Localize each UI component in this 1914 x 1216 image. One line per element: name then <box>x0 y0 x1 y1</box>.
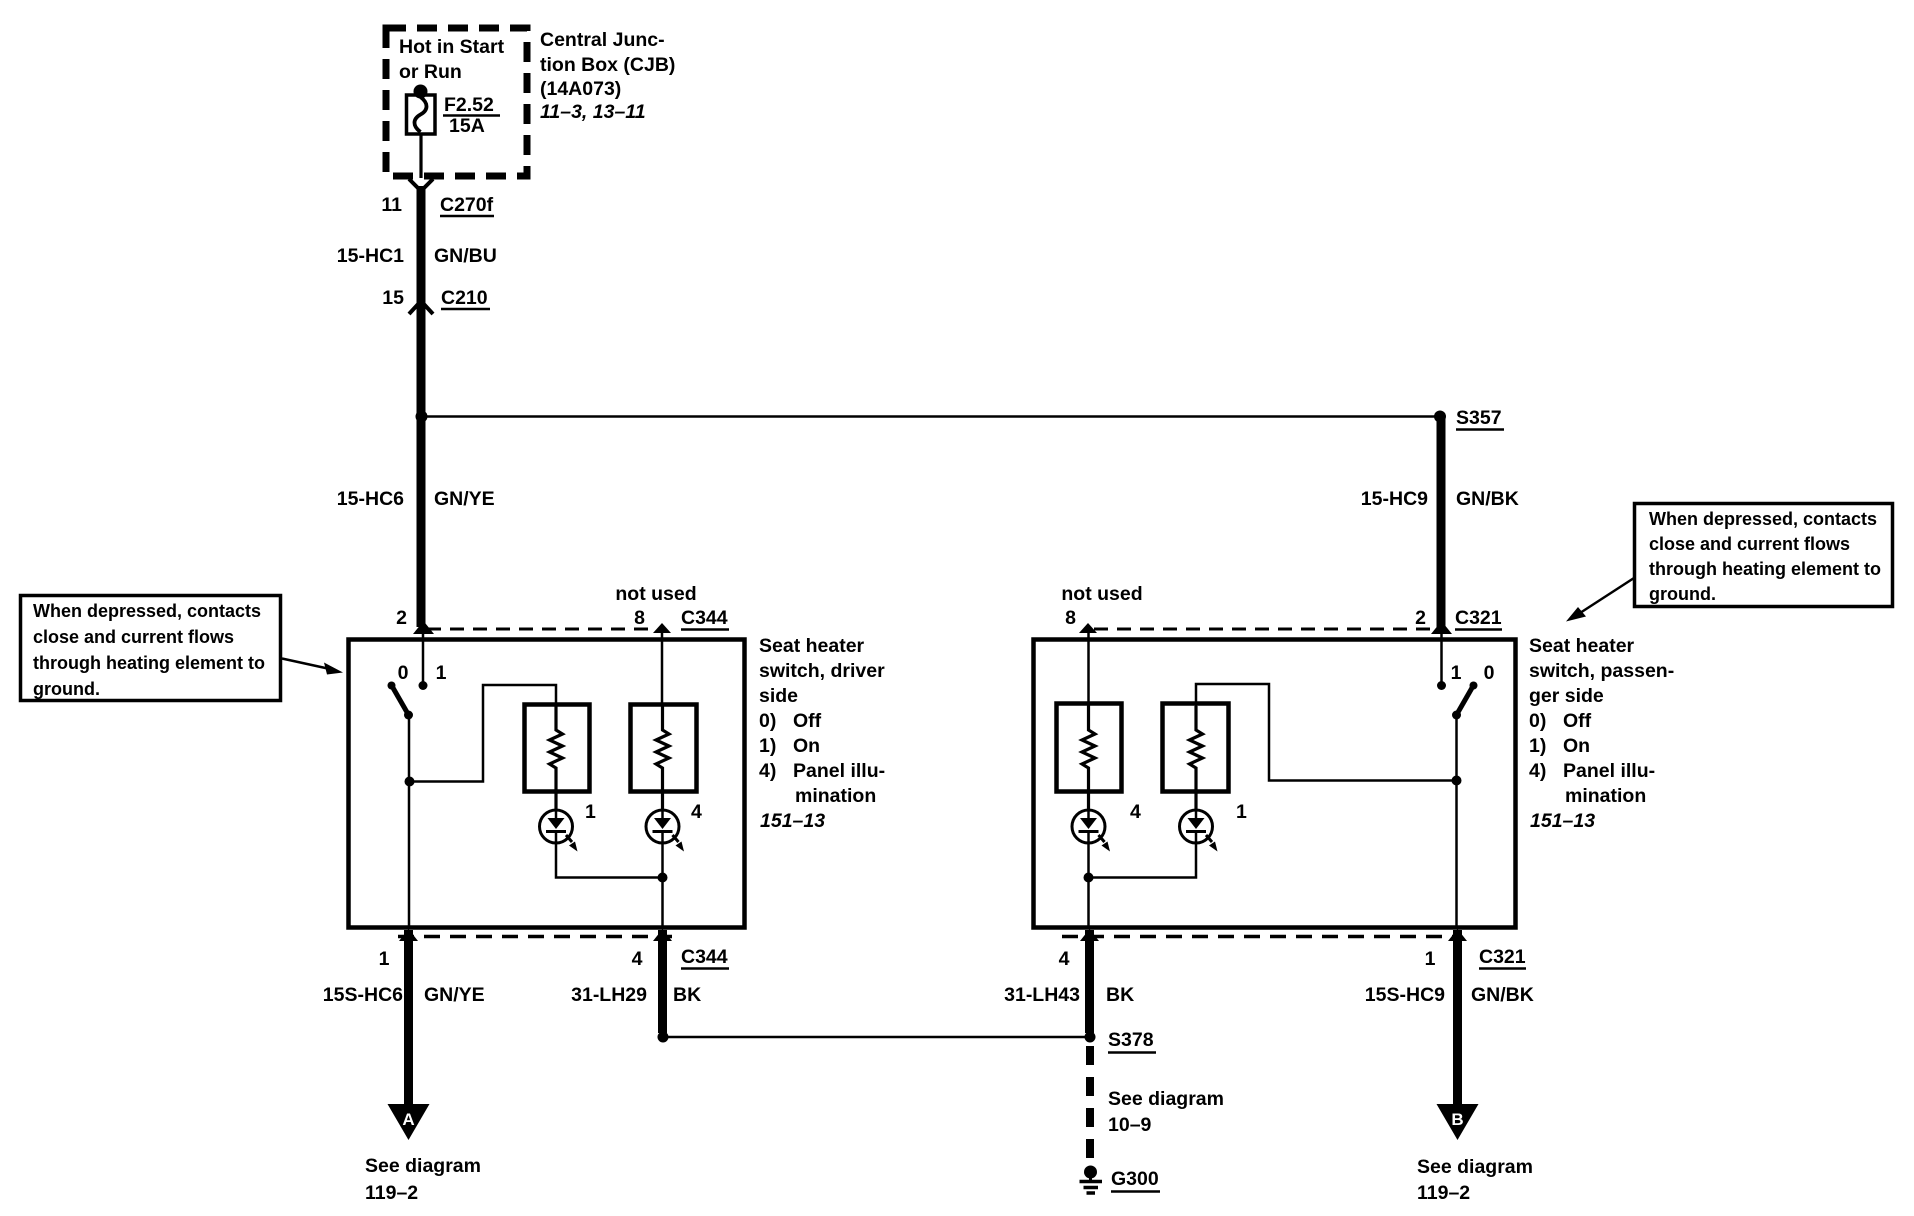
svg-text:See diagram: See diagram <box>1417 1156 1533 1178</box>
off-page arrow B <box>1437 1104 1479 1140</box>
svg-text:On: On <box>793 735 820 757</box>
svg-text:or Run: or Run <box>399 61 462 83</box>
svg-text:GN/YE: GN/YE <box>434 488 495 510</box>
svg-text:On: On <box>1563 735 1590 757</box>
svg-text:S378: S378 <box>1108 1029 1154 1051</box>
switch box driver side <box>349 640 745 928</box>
svg-text:ground.: ground. <box>33 679 100 699</box>
callout note left <box>21 596 281 701</box>
svg-text:1: 1 <box>436 662 447 684</box>
svg-text:Central Junc-: Central Junc- <box>540 29 665 51</box>
svg-text:through heating element to: through heating element to <box>1649 559 1881 579</box>
svg-text:close and current flows: close and current flows <box>33 627 234 647</box>
svg-text:31-LH43: 31-LH43 <box>1004 984 1080 1006</box>
svg-text:1: 1 <box>1451 662 1462 684</box>
node S378 <box>1085 1029 1157 1053</box>
svg-text:31-LH29: 31-LH29 <box>571 984 647 1006</box>
svg-text:switch, passen-: switch, passen- <box>1529 660 1674 682</box>
lamp 4 driver <box>646 801 702 852</box>
connector C210 <box>382 287 490 314</box>
see diagram 10-9 <box>1108 1088 1224 1136</box>
svg-text:Off: Off <box>793 710 822 732</box>
svg-text:GN/BK: GN/BK <box>1471 984 1534 1006</box>
callout arrow right <box>1566 578 1634 622</box>
svg-text:side: side <box>759 685 798 707</box>
svg-text:15S-HC9: 15S-HC9 <box>1365 984 1445 1006</box>
wire lamp 4 to pin 4 passenger <box>1087 843 1090 928</box>
driver box bottom dashed line <box>398 935 672 939</box>
switch box passenger side <box>1034 640 1516 928</box>
svg-text:Panel illu-: Panel illu- <box>793 760 885 782</box>
not used dashed wire passenger <box>1094 628 1437 631</box>
svg-text:15-HC9: 15-HC9 <box>1361 488 1428 510</box>
svg-text:Seat heater: Seat heater <box>1529 635 1635 657</box>
svg-text:GN/BU: GN/BU <box>434 245 497 267</box>
svg-text:C270f: C270f <box>440 194 494 216</box>
svg-text:4): 4) <box>759 760 776 782</box>
wire branch to heating element driver <box>410 685 557 782</box>
svg-text:G300: G300 <box>1111 1168 1159 1190</box>
svg-text:BK: BK <box>1106 984 1134 1006</box>
svg-text:ground.: ground. <box>1649 584 1716 604</box>
junction lamp wires passenger <box>1084 873 1094 883</box>
svg-text:8: 8 <box>634 607 645 629</box>
seat heater switch passenger label <box>1529 635 1674 832</box>
switch SW driver <box>388 634 447 720</box>
connector pin 4 driver C344 <box>632 929 729 970</box>
junction lamp wires driver <box>658 873 668 883</box>
svg-text:15: 15 <box>382 287 404 309</box>
svg-text:151–13: 151–13 <box>760 810 825 832</box>
heating element passenger (pin 8 path) <box>1057 704 1122 811</box>
wire junction to S357 <box>421 415 1440 418</box>
wire 31-LH43 BK <box>1004 930 1134 1033</box>
junction node <box>416 411 428 423</box>
svg-text:C321: C321 <box>1455 607 1502 629</box>
svg-text:not used: not used <box>1061 583 1142 605</box>
svg-text:GN/YE: GN/YE <box>424 984 485 1006</box>
svg-text:4: 4 <box>691 801 702 823</box>
node S357 <box>1434 407 1504 430</box>
wire branch to heating element passenger <box>1196 684 1457 781</box>
connector pin 8 driver C344 <box>634 607 729 633</box>
svg-text:mination: mination <box>1565 785 1646 807</box>
svg-text:0): 0) <box>1529 710 1546 732</box>
svg-text:Off: Off <box>1563 710 1592 732</box>
svg-text:11: 11 <box>381 194 402 216</box>
svg-text:C344: C344 <box>681 946 728 968</box>
dashed wire S378 to G300 <box>1086 1046 1094 1166</box>
svg-text:close and current flows: close and current flows <box>1649 534 1850 554</box>
connector pin 2 driver <box>396 607 434 634</box>
svg-text:Hot in Start: Hot in Start <box>399 36 505 58</box>
svg-text:F2.52: F2.52 <box>444 94 494 116</box>
svg-text:1): 1) <box>759 735 776 757</box>
svg-text:4): 4) <box>1529 760 1546 782</box>
svg-text:See diagram: See diagram <box>365 1155 481 1177</box>
svg-text:switch, driver: switch, driver <box>759 660 885 682</box>
svg-text:B: B <box>1451 1110 1463 1129</box>
svg-text:When depressed, contacts: When depressed, contacts <box>1649 509 1877 529</box>
svg-text:C321: C321 <box>1479 946 1526 968</box>
wire 15S-HC9 GN/BK <box>1365 930 1534 1106</box>
svg-text:0: 0 <box>398 662 409 684</box>
wire pin 8 to heating element 2 driver <box>661 631 664 706</box>
off-page arrow A <box>388 1104 430 1140</box>
see diagram 119-2 right <box>1417 1156 1533 1204</box>
wire switch pole to pin 1 driver <box>408 715 411 928</box>
connector pin 2 passenger C321 <box>1415 607 1502 634</box>
not used dashed wire driver <box>427 583 697 629</box>
svg-text:4: 4 <box>632 948 643 970</box>
svg-text:4: 4 <box>1130 801 1141 823</box>
svg-text:15A: 15A <box>449 115 485 137</box>
connector pin 4 passenger <box>1059 929 1099 970</box>
see diagram 119-2 left <box>365 1155 481 1204</box>
svg-text:8: 8 <box>1065 607 1076 629</box>
svg-text:C344: C344 <box>681 607 728 629</box>
svg-text:119–2: 119–2 <box>1417 1182 1470 1204</box>
CJB dashed box <box>386 28 527 176</box>
connector pin 1 driver <box>379 929 418 970</box>
svg-text:10–9: 10–9 <box>1108 1114 1152 1136</box>
svg-text:C210: C210 <box>441 287 488 309</box>
svg-text:1: 1 <box>379 948 390 970</box>
wire 15S-HC6 GN/YE <box>323 930 485 1106</box>
node at driver BK wire end <box>658 1032 669 1043</box>
heating element driver (pin 8 path) <box>631 705 697 811</box>
svg-text:15-HC1: 15-HC1 <box>337 245 404 267</box>
wire 15-HC1 GN/BU <box>337 186 497 417</box>
svg-text:When depressed, contacts: When depressed, contacts <box>33 601 261 621</box>
passenger box bottom dashed line <box>1062 935 1460 939</box>
svg-text:0): 0) <box>759 710 776 732</box>
wire pin 8 to heating element passenger <box>1087 631 1090 706</box>
wire to S378 <box>663 1036 1090 1039</box>
switch SW passenger <box>1437 634 1495 720</box>
svg-text:Panel illu-: Panel illu- <box>1563 760 1655 782</box>
svg-text:0: 0 <box>1484 662 1495 684</box>
connector C270f <box>381 179 494 216</box>
svg-text:1: 1 <box>585 801 596 823</box>
wire lamp 1 to pin 4 node driver <box>556 843 663 878</box>
junction in driver box <box>405 777 415 787</box>
svg-text:GN/BK: GN/BK <box>1456 488 1519 510</box>
svg-text:119–2: 119–2 <box>365 1182 418 1204</box>
wire 31-LH29 BK <box>571 930 701 1033</box>
svg-text:See diagram: See diagram <box>1108 1088 1224 1110</box>
svg-text:ger side: ger side <box>1529 685 1604 707</box>
CJB label Hot in Start or Run <box>399 36 505 83</box>
wire lamp 4 to pin 4 driver <box>661 843 664 928</box>
heating element passenger (switch path) <box>1163 704 1229 811</box>
svg-text:11–3, 13–11: 11–3, 13–11 <box>540 101 646 123</box>
svg-text:15-HC6: 15-HC6 <box>337 488 404 510</box>
lamp 4 passenger <box>1072 801 1141 852</box>
svg-text:S357: S357 <box>1456 407 1502 429</box>
svg-text:through heating element to: through heating element to <box>33 653 265 673</box>
lamp 1 passenger <box>1180 801 1248 852</box>
svg-text:1: 1 <box>1425 948 1436 970</box>
fuse F2.52 15A <box>407 85 501 138</box>
svg-text:not used: not used <box>615 583 696 605</box>
seat heater switch driver label <box>759 635 885 832</box>
svg-text:4: 4 <box>1059 948 1070 970</box>
wire 15-HC9 GN/BK <box>1361 416 1519 627</box>
wire 15-HC6 GN/YE <box>337 416 495 627</box>
heating element driver (pin 1 path) <box>525 705 590 811</box>
svg-text:Seat heater: Seat heater <box>759 635 865 657</box>
svg-text:tion Box (CJB): tion Box (CJB) <box>540 54 675 76</box>
wire fuse to box edge <box>419 133 422 178</box>
svg-text:(14A073): (14A073) <box>540 78 621 100</box>
wire switch pole to pin 1 passenger <box>1455 715 1458 928</box>
callout note right <box>1635 504 1893 607</box>
callout arrow left <box>282 659 343 675</box>
svg-text:2: 2 <box>396 607 407 629</box>
svg-text:1: 1 <box>1236 801 1247 823</box>
svg-text:1): 1) <box>1529 735 1546 757</box>
svg-text:151–13: 151–13 <box>1530 810 1595 832</box>
ground G300 <box>1080 1166 1161 1194</box>
svg-text:mination: mination <box>795 785 876 807</box>
junction in passenger box <box>1452 776 1462 786</box>
connector pin 1 passenger C321 <box>1425 929 1526 970</box>
svg-text:15S-HC6: 15S-HC6 <box>323 984 403 1006</box>
svg-text:2: 2 <box>1415 607 1426 629</box>
wire lamp 1 to node passenger <box>1089 843 1197 878</box>
svg-text:A: A <box>402 1110 414 1129</box>
lamp 1 driver <box>540 801 597 852</box>
svg-text:BK: BK <box>673 984 701 1006</box>
connector pin 8 passenger <box>1061 583 1142 633</box>
CJB title text <box>540 29 675 123</box>
